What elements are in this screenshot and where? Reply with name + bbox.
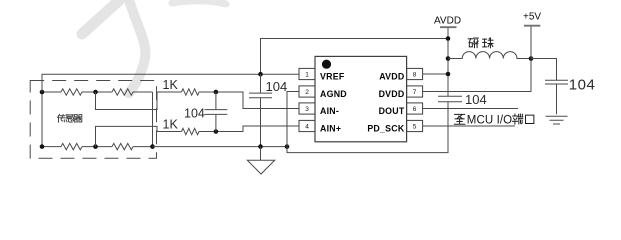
node AGND to ground rail: [285, 144, 290, 149]
pin 4 box: [299, 120, 315, 131]
wire R5 to AIN- pin 3: [199, 92, 299, 109]
svg-text:7: 7: [413, 89, 417, 96]
pin 8 box: [407, 68, 423, 79]
capacitor C2 plates: [249, 93, 272, 98]
node B bottom filter: [214, 129, 219, 134]
svg-text:DVDD: DVDD: [379, 89, 405, 99]
node bridge bottom-left: [40, 144, 45, 149]
text glyph qi (sensor): [74, 115, 82, 122]
svg-text:MCU I/O: MCU I/O: [467, 114, 512, 126]
resistor bridge top-right: [112, 89, 133, 95]
svg-text:+5V: +5V: [523, 11, 541, 22]
svg-text:104: 104: [266, 79, 288, 94]
svg-text:VREF: VREF: [320, 71, 345, 81]
pin 2 box: [299, 86, 315, 97]
wire bridge right vertical: [152, 92, 154, 147]
wire S+ to 1K R5: [96, 92, 182, 110]
node bridge top-left: [40, 90, 45, 95]
pin 3 box: [299, 103, 315, 114]
svg-text:104: 104: [184, 106, 205, 120]
pin 1 indicator dot: [322, 60, 331, 69]
svg-text:AGND: AGND: [320, 89, 347, 99]
text glyph zhi (to MCU): [454, 114, 465, 124]
wire R6 to AIN+ pin 4: [199, 126, 299, 132]
svg-text:1K: 1K: [163, 117, 179, 131]
wire +5V vertical: [530, 26, 532, 59]
wire AVDD vertical: [447, 27, 449, 96]
svg-text:6: 6: [413, 106, 417, 113]
wire DVDD pin7 to +5V: [423, 58, 531, 92]
svg-text:1: 1: [305, 71, 309, 78]
capacitor C2 104 leads: [260, 74, 262, 146]
svg-text:4: 4: [305, 123, 309, 130]
resistor bridge top-left: [61, 89, 82, 95]
node +5V junction: [529, 56, 534, 61]
node AVDD pin8: [446, 72, 451, 77]
resistor R5 1K top: [182, 89, 200, 95]
node A top filter: [214, 90, 219, 95]
node bridge right to ground rail: [150, 144, 155, 149]
resistor bridge bottom-left: [61, 143, 82, 149]
svg-text:104: 104: [465, 92, 487, 107]
node AVDD top wire: [446, 36, 451, 41]
watermark stroke A: [82, 0, 124, 34]
wire AGND pin2 down to ground: [287, 92, 299, 147]
svg-text:3: 3: [305, 106, 309, 113]
svg-text:PD_SCK: PD_SCK: [367, 123, 405, 133]
pin 6 box: [407, 103, 423, 114]
capacitor C4 plates: [545, 80, 568, 84]
wire PD_SCK pin5 to MCU: [423, 125, 515, 127]
wire bridge bottom: [42, 146, 153, 148]
wire C3 return to ground: [287, 102, 448, 153]
svg-text:5: 5: [413, 123, 417, 130]
inductor L1 ferrite bead: [448, 52, 531, 59]
capacitor C3 plates: [438, 96, 462, 102]
svg-text:DOUT: DOUT: [379, 106, 405, 116]
wire ground rail: [153, 146, 288, 148]
text glyph chuan (sensor): [58, 114, 66, 122]
pin 5 box: [407, 120, 423, 131]
wire AVDD pin8: [423, 73, 448, 75]
svg-text:AVDD: AVDD: [379, 71, 404, 81]
node VREF junction: [258, 72, 263, 77]
svg-text:2: 2: [305, 89, 309, 96]
wire DOUT pin6 to MCU: [423, 108, 518, 110]
text glyph kou (port): [526, 115, 534, 123]
ground symbol triangle: [247, 147, 274, 174]
wire VREF pin1 to bridge: [42, 74, 299, 92]
wire C4 to ground: [556, 84, 558, 114]
node S- junction: [93, 144, 98, 149]
node AVDD ferrite bead: [446, 56, 451, 61]
wire bridge top: [42, 91, 153, 93]
op-amp U1 HX711 body: [315, 56, 407, 141]
wire S- to 1K R6: [96, 126, 182, 146]
pin 7 box: [407, 86, 423, 97]
pin 1 box: [299, 68, 315, 79]
sensor dashed box: [30, 81, 156, 159]
capacitor C1 plates: [205, 110, 228, 115]
svg-text:8: 8: [413, 71, 417, 78]
text glyph duan (port): [512, 114, 522, 124]
svg-text:1K: 1K: [163, 78, 179, 92]
capacitor C1 104 leads: [215, 92, 217, 132]
wire VREF up and over to AVDD: [261, 39, 449, 75]
svg-text:AVDD: AVDD: [434, 15, 461, 26]
resistor R6 1K bottom: [182, 128, 200, 134]
svg-text:104: 104: [569, 76, 596, 93]
node S+ junction: [93, 90, 98, 95]
svg-text:AIN+: AIN+: [320, 123, 341, 133]
text glyph ci (bead): [468, 38, 478, 48]
node C2 to ground rail: [258, 144, 263, 149]
wire bridge left vertical: [41, 92, 43, 147]
wire +5V rail to C4: [531, 59, 557, 81]
watermark stroke B: [128, 0, 145, 93]
power flag AVDD tick: [440, 26, 457, 28]
svg-text:AIN-: AIN-: [320, 106, 339, 116]
ground symbol right: [546, 116, 568, 124]
text glyph gan (sensor): [66, 115, 73, 122]
text glyph zhu (bead): [483, 38, 493, 48]
power flag +5V tick: [524, 25, 540, 27]
resistor bridge bottom-right: [112, 143, 133, 149]
watermark stroke C: [172, 1, 226, 4]
